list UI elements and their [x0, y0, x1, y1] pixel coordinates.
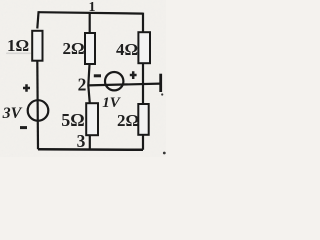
- paper texture: [0, 0, 166, 157]
- wire left branch upper stub: [37, 11, 38, 28]
- minus sign V1: [20, 126, 27, 129]
- wire right branch: [142, 13, 144, 150]
- wire middle top stub: [89, 13, 91, 33]
- resistor R4 5ohm: [86, 103, 98, 135]
- resistor R1 1ohm: [32, 31, 42, 61]
- resistor R2 2ohm (top middle): [85, 33, 95, 64]
- plus sign V2: [130, 71, 137, 79]
- resistor R3 4ohm: [138, 32, 150, 63]
- source V1 3V circle: [28, 100, 49, 121]
- wire left branch through circle to corner: [36, 60, 39, 150]
- svg-text:1: 1: [89, 0, 96, 15]
- wire 1V horizontal from node 2: [88, 84, 160, 86]
- svg-text:1Ω: 1Ω: [7, 36, 29, 55]
- speck near terminal: [161, 93, 163, 95]
- wire bottom bus (node 3): [38, 148, 143, 151]
- terminal stub right: [159, 74, 162, 92]
- svg-text:2: 2: [78, 74, 87, 94]
- svg-text:1V: 1V: [102, 95, 122, 111]
- wire middle node2 segment: [88, 65, 90, 104]
- svg-text:5Ω: 5Ω: [61, 110, 84, 130]
- svg-text:2Ω: 2Ω: [117, 111, 139, 130]
- svg-text:2Ω: 2Ω: [62, 39, 84, 58]
- svg-text:3V: 3V: [2, 105, 23, 122]
- resistor R5 2ohm (bottom right): [138, 104, 148, 135]
- speck bottom right: [163, 152, 166, 155]
- wire top bus (node 1): [39, 12, 144, 13]
- plus sign V1: [23, 84, 30, 91]
- svg-text:4Ω: 4Ω: [116, 40, 138, 59]
- wire middle bottom stub: [89, 136, 91, 150]
- minus sign V2: [94, 74, 101, 77]
- smudge left: [6, 53, 31, 55]
- svg-text:3: 3: [77, 131, 86, 151]
- source V2 1V circle: [105, 72, 123, 90]
